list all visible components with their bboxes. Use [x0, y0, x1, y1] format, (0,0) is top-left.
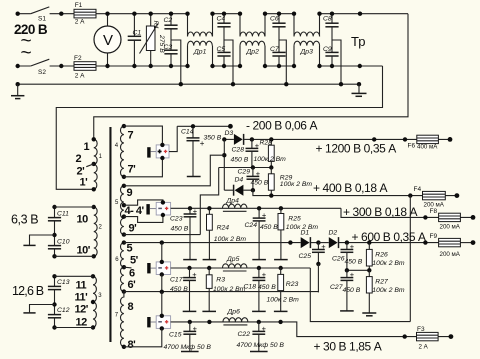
svg-text:C23: C23: [170, 215, 183, 222]
wire C2C3 midpoint to ground rail: [171, 40, 181, 84]
diode D2: [318, 229, 438, 248]
diode D1: [301, 229, 319, 248]
svg-text:12': 12': [75, 304, 89, 316]
svg-text:+ 1200 В 0,35 А: + 1200 В 0,35 А: [316, 141, 397, 155]
capacitor C23 450V: [170, 207, 198, 260]
svg-text:+: +: [192, 270, 197, 279]
capacitor C27 450V: [330, 270, 361, 311]
svg-text:C24: C24: [245, 222, 258, 229]
capacitor C9: [323, 27, 339, 68]
svg-text:100к 2 Вт: 100к 2 Вт: [214, 236, 247, 243]
svg-text:11: 11: [76, 280, 87, 292]
choke Dr4: [223, 198, 247, 212]
node D1 D2 junction: [316, 240, 320, 244]
svg-text:+ 300 В 0,18 А: + 300 В 0,18 А: [343, 205, 418, 219]
wire rail Q drop to bridge VD4 top: [161, 292, 163, 317]
svg-text:R23: R23: [286, 281, 299, 288]
wire +400V rail with F4: [253, 190, 457, 195]
node on top rail: [358, 12, 362, 16]
resistor R23 100k 2W: [267, 268, 300, 311]
switch S1: [16, 7, 64, 23]
wire tap4' to bridge VD2 bottom: [124, 215, 163, 222]
svg-text:Тр: Тр: [351, 34, 365, 49]
svg-text:C6: C6: [270, 16, 279, 23]
fuse F4 200mA: [414, 186, 446, 208]
svg-text:9: 9: [127, 187, 133, 199]
wire rail Q (pin 6' to C25): [124, 291, 319, 294]
svg-text:+: +: [262, 211, 267, 220]
resistor R25 100k 2W: [274, 208, 318, 259]
wire ground rail: [18, 83, 359, 85]
node on bottom rail: [358, 64, 362, 68]
svg-text:C12: C12: [57, 307, 70, 314]
capacitor C4: [217, 12, 231, 27]
svg-text:F6: F6: [408, 143, 416, 150]
resistor R24 100k 2W: [203, 208, 247, 259]
svg-text:R3: R3: [216, 276, 225, 283]
wire C13 top to winding11: [55, 275, 94, 277]
svg-text:D2: D2: [329, 229, 338, 236]
svg-text:5': 5': [130, 255, 139, 267]
svg-text:Др2: Др2: [246, 49, 260, 56]
svg-text:C28: C28: [232, 147, 245, 154]
node R26 top junction: [367, 240, 371, 244]
wire C26 C27 R26 R27 midpoint: [347, 269, 369, 271]
resistor R3 100k 2W: [202, 268, 245, 311]
svg-text:C27: C27: [330, 284, 343, 291]
capacitor C5: [217, 27, 231, 68]
wire bottom rail to primary pin 1' (inner loop): [56, 66, 382, 189]
ground 12.6V: [23, 305, 54, 313]
svg-text:- 200 В 0,06 А: - 200 В 0,06 А: [246, 118, 318, 132]
capacitor C14 350V: [181, 124, 222, 176]
capacitor C25: [299, 242, 327, 266]
svg-text:6,3 В: 6,3 В: [11, 213, 38, 227]
svg-text:8: 8: [128, 301, 134, 313]
capacitor C2: [164, 12, 178, 29]
wire C6C7 midpoint to ground rail: [279, 40, 286, 84]
ground right (Tr box): [352, 84, 367, 96]
svg-text:C9: C9: [323, 46, 332, 53]
svg-text:+: +: [321, 242, 326, 251]
capacitor C24 450V: [245, 208, 279, 259]
svg-text:+: +: [193, 324, 198, 333]
wire +1200V rail with F6: [252, 138, 450, 140]
svg-text:+ 400 В 0,18 А: + 400 В 0,18 А: [313, 181, 388, 195]
capacitor C1: [128, 12, 142, 69]
wire midpoint row to pin 9': [200, 168, 218, 235]
capacitor C10: [48, 233, 70, 259]
node F9 junction: [423, 240, 427, 244]
capacitor C7: [270, 27, 286, 68]
wire pin7' to bridge VD1 bottom: [124, 159, 162, 177]
svg-text:200 мА: 200 мА: [440, 251, 461, 258]
capacitor C8: [323, 12, 339, 27]
svg-text:4- 4': 4- 4': [125, 205, 145, 217]
svg-text:R1: R1: [152, 21, 159, 30]
resistor R29 100k 2W: [268, 168, 312, 196]
svg-text:100к 2 Вт: 100к 2 Вт: [267, 296, 300, 303]
svg-text:C3: C3: [164, 44, 173, 51]
svg-text:11': 11': [75, 292, 89, 304]
resistor R28 100k 2W: [254, 139, 287, 167]
svg-text:R24: R24: [217, 225, 230, 232]
wire pin5 rail drop to bridge VD3 top: [161, 243, 163, 262]
svg-text:Др3: Др3: [300, 49, 314, 56]
svg-text:C1: C1: [133, 30, 142, 37]
svg-text:D4: D4: [235, 176, 244, 183]
wire Dr5 rail from bridge VD3: [171, 267, 311, 269]
svg-text:7: 7: [128, 130, 134, 142]
svg-text:F9: F9: [430, 233, 438, 240]
svg-text:Др5: Др5: [226, 256, 240, 263]
bridge rectifier VD2: [146, 200, 170, 217]
svg-text:Др1: Др1: [193, 49, 207, 56]
resistor R27 100k 2W: [366, 270, 405, 312]
capacitor C17 450V: [170, 268, 197, 311]
svg-text:F8: F8: [430, 208, 438, 215]
choke Dr6: [223, 309, 248, 325]
varistor R1 275V: [140, 12, 165, 69]
svg-text:450 В: 450 В: [251, 180, 269, 187]
winding 5 pins 9-4-4'-9': [115, 184, 144, 237]
svg-text:C18: C18: [244, 283, 257, 290]
svg-text:2 А: 2 А: [75, 73, 85, 80]
svg-text:R27: R27: [375, 278, 388, 285]
winding 7 pins 8-8': [115, 292, 136, 351]
svg-text:C2: C2: [164, 17, 173, 24]
ground left: [11, 84, 24, 98]
wire bottom rail segments: [18, 65, 383, 67]
choke Dr1: [185, 12, 214, 69]
svg-text:450 В: 450 В: [343, 287, 361, 294]
fuse F8 200mA: [430, 208, 461, 231]
fuse F1 2A: [74, 2, 96, 26]
capacitor C15 4700uF 50V: [164, 322, 212, 352]
svg-text:12: 12: [76, 317, 88, 329]
svg-text:10': 10': [77, 245, 91, 257]
svg-text:+ 30 В 1,85 А: + 30 В 1,85 А: [314, 340, 382, 354]
bridge rectifier VD1: [147, 143, 169, 161]
svg-text:C17: C17: [170, 276, 183, 283]
svg-text:5: 5: [127, 243, 133, 255]
svg-text:450 В: 450 В: [260, 224, 278, 231]
svg-text:4700 Мкф 50 В: 4700 Мкф 50 В: [164, 344, 212, 351]
svg-text:6': 6': [128, 279, 137, 291]
wire pin7 to bridge VD1 top: [124, 126, 162, 144]
winding 4 pins 7-7': [115, 124, 136, 179]
diode D4: [224, 176, 255, 195]
ground R27: [362, 313, 376, 316]
svg-text:R25: R25: [288, 215, 301, 222]
svg-text:C14: C14: [181, 128, 194, 135]
svg-text:2 А: 2 А: [419, 344, 429, 351]
choke Dr2: [238, 12, 267, 69]
svg-text:12,6 В: 12,6 В: [12, 284, 44, 298]
svg-text:C7: C7: [270, 46, 279, 53]
capacitor C11: [48, 205, 69, 235]
capacitor C29 450V: [238, 168, 269, 191]
svg-text:~: ~: [21, 43, 32, 64]
svg-text:C4: C4: [217, 16, 226, 23]
svg-text:+: +: [262, 270, 267, 279]
svg-text:C29: C29: [238, 169, 251, 176]
node +600V terminal: [471, 240, 476, 245]
svg-text:100к 2 Вт: 100к 2 Вт: [280, 181, 313, 188]
bridge rectifier VD3: [147, 260, 170, 277]
wire tap4 to bridge VD2 top: [124, 200, 163, 205]
capacitor C26 450V: [332, 242, 363, 270]
node +400V terminal: [455, 193, 460, 198]
svg-text:D3: D3: [225, 130, 234, 137]
bridge rectifier VD4: [147, 314, 170, 331]
svg-text:+: +: [350, 242, 355, 251]
voltmeter PV1: [94, 12, 121, 69]
transformer core: [109, 127, 111, 342]
capacitor C3: [164, 29, 178, 68]
svg-text:2 А: 2 А: [75, 19, 85, 26]
svg-text:100к 2 Вт: 100к 2 Вт: [372, 287, 405, 294]
wire Dr4 rail from bridge VD2: [171, 207, 341, 209]
diode D3: [222, 130, 252, 145]
svg-text:10: 10: [77, 214, 89, 226]
wire C4C5 midpoint to ground rail: [224, 40, 233, 84]
fuse F9 200mA: [430, 233, 474, 258]
resistor R26 100k 2W: [366, 243, 405, 271]
svg-text:Др6: Др6: [227, 309, 241, 316]
fuse F3 2A: [417, 326, 439, 350]
wire top rail to primary pin 1 (outer loop): [94, 14, 408, 140]
svg-text:R28: R28: [260, 140, 273, 147]
svg-text:C25: C25: [299, 253, 312, 260]
capacitor C6: [270, 12, 286, 27]
wire D3 anode to D4 cathode column: [223, 139, 225, 190]
svg-text:C15: C15: [169, 331, 182, 338]
svg-text:450 В: 450 В: [345, 259, 363, 266]
svg-text:F3: F3: [417, 326, 425, 333]
wire C25 return to rail Q: [317, 264, 319, 292]
svg-text:8': 8': [128, 339, 137, 351]
capacitor C12: [48, 302, 70, 329]
svg-text:C22: C22: [238, 331, 251, 338]
svg-text:C5: C5: [217, 46, 226, 53]
svg-text:C10: C10: [57, 239, 70, 246]
winding 3 (12.6V) pins 11-11'-12'-12: [75, 274, 103, 330]
wire C10 bottom to winding10': [55, 255, 94, 257]
svg-text:+: +: [193, 207, 198, 216]
wire +30V rail from bridge VD4: [171, 322, 451, 337]
wire C8C9 midpoint to ground rail: [332, 40, 341, 84]
svg-text:R26: R26: [375, 251, 388, 258]
svg-text:F1: F1: [75, 2, 83, 9]
winding 2 (6.3V) pins 10-10': [77, 205, 103, 259]
svg-text:200 мА: 200 мА: [440, 224, 461, 231]
ground 6.3V: [23, 235, 54, 245]
svg-text:F4: F4: [414, 186, 422, 193]
wire -200V rail: [177, 125, 230, 127]
svg-text:+: +: [256, 169, 261, 178]
fuse F6 400mA: [408, 135, 439, 150]
svg-text:C11: C11: [57, 211, 69, 218]
svg-text:+: +: [350, 270, 355, 279]
node -200V terminal: [228, 124, 233, 129]
node +1200V terminal: [448, 137, 453, 142]
choke Dr5: [223, 256, 247, 271]
wire pin 9' rail: [124, 234, 200, 236]
svg-text:400 мА: 400 мА: [417, 143, 438, 150]
capacitor C13: [48, 274, 70, 304]
svg-text:450 В: 450 В: [171, 225, 189, 232]
svg-text:100к 2 Вт: 100к 2 Вт: [254, 156, 287, 163]
wire C11 top to winding10: [55, 206, 94, 208]
svg-text:450 В: 450 В: [258, 284, 276, 291]
svg-text:6: 6: [129, 268, 135, 280]
svg-text:1': 1': [80, 177, 89, 189]
svg-text:2: 2: [76, 153, 82, 165]
svg-text:9': 9': [129, 223, 138, 235]
capacitor C18 450V: [244, 268, 277, 311]
svg-text:350 В: 350 В: [204, 134, 222, 141]
svg-text:F2: F2: [74, 55, 82, 62]
wire bridge VD3 bottom to pin 6' rail: [161, 275, 163, 292]
svg-text:D1: D1: [301, 229, 310, 236]
svg-text:Др4: Др4: [226, 198, 240, 205]
node +300V terminal: [471, 215, 476, 220]
capacitor C28 450V: [231, 139, 260, 167]
svg-text:1: 1: [84, 141, 90, 153]
wire C28/C29 midpoint row: [219, 167, 272, 169]
node +600 rail junction: [345, 240, 349, 244]
svg-text:V: V: [103, 32, 113, 49]
svg-text:4700 Мкф 50 В: 4700 Мкф 50 В: [237, 342, 285, 349]
svg-text:+: +: [262, 324, 267, 333]
svg-text:7': 7': [128, 164, 137, 176]
capacitor C22 4700uF 50V: [237, 322, 285, 352]
primary winding 1-2-2'-1': [76, 137, 103, 191]
wire C12 bottom to winding12: [55, 327, 94, 329]
switch S2: [16, 59, 64, 76]
fuse F2 2A: [74, 55, 96, 80]
wire bridge VD4 bottom to pin 8': [124, 328, 162, 346]
wire Dr5 rail to +400 loop (right box): [310, 196, 410, 322]
wire +300V jog and F8: [341, 208, 473, 217]
svg-text:C8: C8: [323, 16, 332, 23]
winding 6 pins 5-5'-6-6': [115, 240, 138, 293]
choke Dr3: [292, 12, 322, 69]
wire pin5 rail to D1: [124, 242, 301, 244]
svg-text:C26: C26: [332, 256, 345, 263]
node +30V terminal: [449, 334, 454, 339]
wire bridge VD1 plus output to C14 rail: [169, 126, 177, 151]
svg-text:+ 600 В 0,35 А: + 600 В 0,35 А: [352, 230, 427, 244]
wire top rail segments: [18, 13, 408, 15]
svg-text:S2: S2: [38, 69, 46, 76]
svg-text:100к 2 Вт: 100к 2 Вт: [372, 260, 405, 267]
svg-text:450 В: 450 В: [231, 157, 249, 164]
wire doubler column to pin 9: [124, 155, 224, 186]
svg-text:C13: C13: [57, 279, 70, 286]
